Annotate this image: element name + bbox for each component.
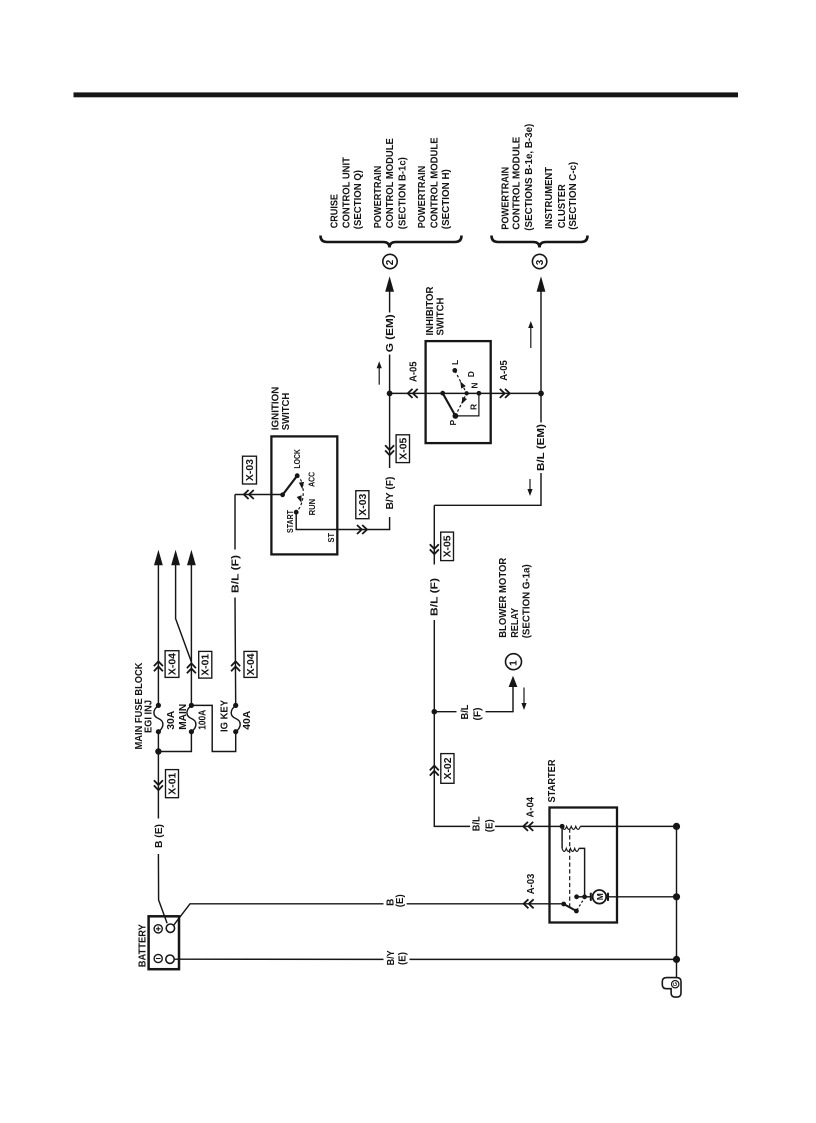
wire B (E) battery to starter [174,904,564,926]
svg-text:(SECTIONS B-1e, B-3e): (SECTIONS B-1e, B-3e) [524,124,535,231]
battery plus terminal [166,924,174,932]
node bus top [673,823,680,830]
svg-text:X-04: X-04 [246,653,257,675]
wire inhibitor to junction B [491,392,541,394]
svg-text:B/L (EM): B/L (EM) [536,424,547,471]
svg-text:40A: 40A [242,711,253,730]
svg-text:30A: 30A [166,711,177,730]
label POWERTRAIN CONTROL MODULE (SECTION B-1c) [373,138,408,229]
node fuse bus [155,748,161,754]
inhibitor contact P [453,413,459,419]
node junction B (541,393.4) [538,391,544,397]
connector chevron X-05 (starter riser) [430,544,439,554]
flow arrow up beside G (EM) [377,361,382,385]
connector box X-05 (starter riser) [441,532,454,561]
ignition arc arrow at RUN [297,495,304,503]
svg-text:B/L: B/L [472,816,483,831]
wire junction A down to ST corner [296,393,389,529]
svg-text:X-03: X-03 [245,459,256,481]
connector box X-01 (wire 3) [199,651,212,678]
node 2 circle [383,254,397,268]
connector chevron X-01 (wire 3) [187,663,196,673]
label INHIBITOR SWITCH [425,286,446,336]
ground lug G [662,978,681,998]
svg-text:A-05: A-05 [499,360,510,381]
connector chevron A-03 [524,899,534,908]
svg-text:X-04: X-04 [167,653,178,675]
svg-text:X-02: X-02 [443,757,454,779]
fuse MAIN 100A [187,703,196,735]
label CRUISE CONTROL UNIT (SECTION Q) [330,157,364,229]
fuse IG KEY 40A [231,703,240,735]
wire B/Y (E) battery to ground bus [174,958,676,960]
connector chevron A-05 right [500,389,510,398]
svg-text:(SECTION H): (SECTION H) [441,169,452,229]
svg-text:CLUSTER: CLUSTER [557,184,568,229]
starter hold-in coil [550,824,677,830]
inhibitor switch box [426,341,491,443]
node 1 circle [506,654,522,670]
svg-text:INHIBITOR: INHIBITOR [425,286,436,336]
node bus middle [673,893,680,900]
wire battery feed B (E) [158,752,167,924]
svg-text:(E): (E) [398,952,409,965]
svg-text:1: 1 [509,660,520,666]
svg-text:LOCK: LOCK [292,448,302,468]
svg-text:X-05: X-05 [443,535,454,557]
svg-text:100A: 100A [197,710,208,730]
svg-text:(F): (F) [473,708,484,721]
wire G (EM) vertical to node 2 [389,291,391,393]
svg-text:ST: ST [326,532,336,542]
svg-text:G (EM): G (EM) [385,314,396,352]
svg-text:B/L: B/L [460,705,471,720]
inhibitor arm to P [443,393,456,416]
top rule [74,92,739,97]
inhibitor arc arrow at D [458,380,466,389]
connector chevron A-05 left [408,389,418,398]
svg-text:B/L (F): B/L (F) [430,578,441,616]
wire B/L (F) down to starter branch [434,505,549,826]
svg-text:STARTER: STARTER [547,759,558,803]
connector box X-03 (ignition feed) [243,456,257,484]
flow arrow down beside blower riser [521,688,526,711]
svg-text:B/Y: B/Y [386,950,397,965]
svg-text:RUN: RUN [307,499,317,516]
ground bus vertical [676,826,678,978]
connector box X-04 (ignition riser) [244,651,257,677]
ignition common contact [280,492,285,497]
svg-text:A-05: A-05 [409,361,420,382]
svg-text:RELAY: RELAY [510,608,521,638]
battery box [149,916,179,969]
svg-text:D: D [466,371,476,377]
label B/Y (E) [386,950,409,965]
svg-text:CONTROL MODULE: CONTROL MODULE [429,137,440,228]
connector chevron X-03 (ignition feed) [244,490,254,499]
wire B/L (F) into ignition switch [235,494,283,496]
svg-text:(SECTION B-1c): (SECTION B-1c) [398,157,409,229]
arrow to node 2 [385,276,394,292]
svg-text:BATTERY: BATTERY [137,924,148,967]
svg-text:P: P [448,420,458,426]
svg-text:SWITCH: SWITCH [281,393,292,431]
connector chevron X-04 (wire 1) [154,661,163,671]
inhibitor R loop wire [455,393,479,416]
svg-text:INSTRUMENT: INSTRUMENT [544,167,555,229]
battery minus symbol [154,954,162,962]
svg-text:(E): (E) [484,819,495,832]
node bus bottom [673,956,680,963]
label B/L (E) [472,816,496,832]
inhibitor arc arrow at R [459,397,467,406]
brace group 2 [321,236,462,248]
svg-text:IGNITION: IGNITION [271,387,282,431]
starter pull-in coil [562,826,585,896]
svg-text:X-01: X-01 [167,772,178,794]
label IGNITION SWITCH [271,387,293,431]
svg-text:BLOWER MOTOR: BLOWER MOTOR [498,557,509,638]
connector chevron X-03 on ST wire [357,525,367,534]
flow arrow up beside node 3 wire [528,321,533,348]
svg-text:(SECTION C-c): (SECTION C-c) [568,162,579,230]
svg-text:CRUISE: CRUISE [330,194,341,229]
wire B/L (F) vertical from fuse to ignition [234,495,237,706]
fuse block bus wires [158,705,235,751]
hot arrow 3 [187,550,196,706]
svg-text:(SECTION Q): (SECTION Q) [353,170,364,229]
svg-text:A-04: A-04 [526,796,537,817]
connector box X-05 (riser) [396,435,409,463]
starter box [550,808,618,923]
svg-text:POWERTRAIN: POWERTRAIN [500,167,511,230]
svg-text:L: L [450,360,460,365]
svg-text:EGI INJ: EGI INJ [144,700,155,733]
arrow to node 3 [537,276,546,292]
svg-text:A-03: A-03 [526,873,537,894]
node junction A (389.6,393.4) [387,391,393,397]
svg-text:B/Y (F): B/Y (F) [385,477,396,510]
svg-text:3: 3 [535,259,546,265]
inhibitor contact L [452,368,457,373]
ignition arc arrow at ACC [299,482,305,490]
battery minus terminal [166,955,174,963]
svg-text:CONTROL MODULE: CONTROL MODULE [512,136,523,229]
inhibitor dashed arc P-R-N-D-L [455,370,467,416]
svg-text:SWITCH: SWITCH [436,298,447,336]
fuse EGI INJ 30A [154,703,163,735]
svg-text:(E): (E) [395,894,406,907]
svg-text:2: 2 [385,259,396,265]
ignition switch box [271,436,337,554]
wire blower branch [434,687,513,712]
connector box X-04 (wire 1) [165,651,179,678]
connector chevron X-05 on ST riser [385,445,394,455]
svg-text:CONTROL MODULE: CONTROL MODULE [385,138,396,228]
ignition arm to LOCK [283,476,298,495]
inhibitor internal wire [426,392,491,394]
inhibitor contact N [464,391,468,395]
svg-text:X-01: X-01 [201,653,212,675]
inhibitor contact R-row [477,391,482,396]
svg-text:X-03: X-03 [358,493,369,515]
label INSTRUMENT CLUSTER (SECTION C-c) [544,162,579,230]
label B (E) starter wire [386,894,407,907]
svg-text:B/L (F): B/L (F) [230,555,241,593]
arrow to node 1 [509,676,518,687]
connector box X-01 (battery feed) [166,770,179,798]
starter moving contact [561,898,584,913]
svg-text:IG KEY: IG KEY [220,700,231,732]
connector box X-03 (ST) [356,491,369,519]
label POWERTRAIN CONTROL MODULE (SECTIONS B-1e, B-3e) [500,124,534,231]
svg-text:CONTROL UNIT: CONTROL UNIT [341,157,352,228]
hot arrow 2 [171,550,191,662]
node blower branch junction [432,709,438,715]
svg-text:START: START [285,509,295,533]
node 3 circle [532,254,546,268]
svg-text:MAIN: MAIN [178,704,189,730]
ignition dashed arc LOCK-ACC-RUN-START [296,476,303,513]
connector chevron X-02 [430,766,439,776]
hot at all times arrow 1 [154,550,163,706]
svg-text:(SECTION G-1a): (SECTION G-1a) [521,564,532,638]
svg-text:G: G [673,982,679,986]
flow arrow down beside B/L (EM) [527,479,532,496]
brace group 3 [492,236,588,248]
svg-text:R: R [468,404,478,410]
starter plunger dashed link [569,829,571,910]
svg-text:ACC: ACC [307,472,317,487]
battery plus symbol [154,925,162,933]
connector chevron X-04 (ignition riser) [231,661,240,671]
starter motor feed nodes [574,894,591,899]
connector chevron A-04 [523,822,533,831]
label POWERTRAIN CONTROL MODULE (SECTION H) [417,137,452,229]
connector box X-02 [441,754,454,784]
svg-text:M: M [595,893,605,900]
label BLOWER MOTOR RELAY (SECTION G-1a) [498,557,532,638]
label B/L (F) blower branch [460,705,483,721]
svg-text:X-05: X-05 [398,437,409,459]
svg-text:N: N [470,382,480,388]
svg-text:B (E): B (E) [154,824,165,848]
wire B/L (EM) vertical to node 3 [434,291,541,505]
svg-text:POWERTRAIN: POWERTRAIN [417,166,428,229]
inhibitor common contact [440,391,445,396]
connector chevron X-01 (battery feed) [154,780,163,790]
wire junction A to inhibitor switch [390,392,426,394]
ignition contact LOCK [295,473,300,478]
ignition contact START [294,510,299,515]
svg-text:POWERTRAIN: POWERTRAIN [373,166,384,229]
starter motor M [591,890,677,904]
